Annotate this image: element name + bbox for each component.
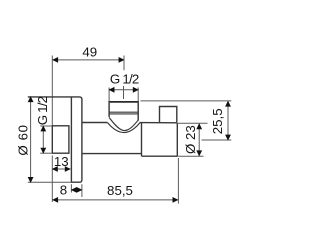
dim G1/2 left: extensions	[40, 125, 51, 127]
dim 25,5: line and arrows	[227, 101, 229, 140]
svg-text:49: 49	[82, 44, 97, 59]
dim G1/2 top: line and arrows	[109, 89, 138, 91]
body top edge (left of bell)	[82, 122, 108, 124]
wire: extension line left (x=52.3 vertical, pipe end face)	[51, 56, 53, 126]
wire: axis ext of top fitting	[123, 56, 125, 71]
dim G1/2 left: line and arrows	[42, 126, 44, 153]
dim 85,5: line and arrows	[53, 199, 178, 201]
dim 49: line and arrows	[53, 59, 124, 61]
dim Ø23: extensions	[178, 122, 208, 124]
svg-text:G 1/2: G 1/2	[35, 96, 50, 125]
bell outer curve	[107, 123, 139, 133]
dim 8: line and arrows	[71, 189, 82, 191]
svg-text:Ø 60: Ø 60	[15, 124, 30, 155]
knob (square) on outlet	[160, 107, 177, 123]
outlet bottom edge	[142, 155, 178, 157]
dim Ø60: line and arrows	[30, 97, 32, 182]
joint line body/outlet	[141, 123, 143, 157]
wall pipe G1/2 (left rectangle)	[52, 126, 69, 153]
wall plate (escutcheon side view)	[28, 97, 82, 182]
svg-text:13: 13	[54, 154, 69, 169]
svg-text:Ø 23: Ø 23	[183, 125, 198, 154]
svg-text:85,5: 85,5	[107, 183, 133, 198]
dim 8: extensions	[70, 184, 72, 192]
wire: 85,5 right extension	[177, 158, 179, 204]
bell inner curve	[109, 117, 138, 130]
svg-text:8: 8	[60, 183, 67, 198]
dim G1/2 top: extension lines	[108, 88, 110, 102]
wire: Ø60 bottom extension	[28, 181, 71, 183]
dim 13: line and arrows	[52, 168, 70, 170]
top fitting G1/2 rect	[109, 103, 138, 121]
dim 25,5: extensions	[141, 100, 232, 102]
svg-text:G 1/2: G 1/2	[110, 72, 139, 87]
outlet top edge	[140, 122, 178, 124]
body bottom edge	[82, 153, 142, 155]
outlet end face	[176, 123, 178, 156]
svg-text:25,5: 25,5	[210, 108, 225, 134]
dim Ø23: line and arrows	[198, 124, 200, 156]
